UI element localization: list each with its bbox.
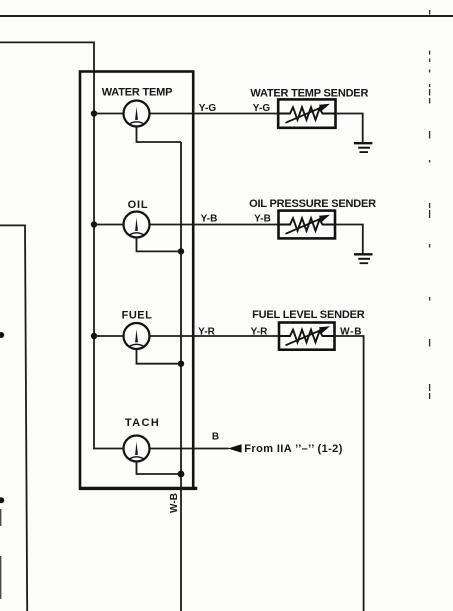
resistor: oil pressure sender element xyxy=(279,218,336,231)
svg-text:WATER TEMP: WATER TEMP xyxy=(102,86,173,98)
wire: gauge supply bus xyxy=(94,114,124,449)
svg-text:W-B: W-B xyxy=(169,493,180,513)
svg-text:FUEL: FUEL xyxy=(122,309,153,321)
svg-text:TACH: TACH xyxy=(125,417,160,429)
instrument cluster box xyxy=(80,72,193,489)
resistor: fuel level sender element xyxy=(279,330,335,343)
arrow: variable resistor (water temp) xyxy=(286,105,327,123)
wire: tach signal (B) xyxy=(150,448,229,450)
resistor: water temp sender element xyxy=(278,107,335,120)
wire: water temp gauge to sender (Y-G) xyxy=(150,113,279,115)
sender: fuel level sender box xyxy=(279,323,335,350)
arrow: variable resistor (fuel) xyxy=(286,328,327,346)
wire: fuel gauge negative return xyxy=(137,349,182,364)
wire: clipped wire at left page edge (lower segment) xyxy=(0,556,2,599)
wire: fuel gauge to sender (Y-R) xyxy=(150,335,280,337)
wire: clipped wire at left page edge (upper segment) xyxy=(0,509,2,526)
node: bus junction at water temp gauge xyxy=(91,110,97,116)
wire: bus to fuel gauge xyxy=(94,335,124,337)
svg-text:Y-R: Y-R xyxy=(198,326,216,337)
arrow: variable resistor (oil) xyxy=(286,216,327,234)
sender: oil pressure sender box xyxy=(279,211,336,239)
wire: oil sender to ground xyxy=(335,225,363,254)
wire: oil gauge negative return xyxy=(137,238,182,252)
sender: water temp sender box xyxy=(278,99,335,127)
wire: tach negative return xyxy=(137,462,182,475)
svg-text:Y-B: Y-B xyxy=(254,213,271,224)
gauge: oil pressure meter xyxy=(124,212,150,238)
gauge: water temp meter xyxy=(124,101,150,127)
wire: bus to water temp gauge xyxy=(94,113,124,115)
wire: oil gauge to sender (Y-B) xyxy=(150,224,279,226)
boundary: dashed page divider xyxy=(429,10,431,399)
svg-text:B: B xyxy=(212,431,219,442)
instrument cluster box bottom edge (heavier scan stroke) xyxy=(79,487,197,490)
svg-text:Y-G: Y-G xyxy=(253,103,271,114)
svg-text:OIL PRESSURE SENDER: OIL PRESSURE SENDER xyxy=(249,198,376,210)
wire: left branch turning down xyxy=(0,225,27,611)
wire: bus to oil gauge xyxy=(94,224,124,226)
svg-text:Y-R: Y-R xyxy=(251,326,269,337)
node: junction at left page edge (upper) xyxy=(0,332,4,338)
wire: water temp gauge negative return xyxy=(137,127,182,143)
wire: feed from left to instrument cluster xyxy=(0,42,94,113)
node: bus junction at fuel gauge xyxy=(91,333,97,339)
node: collector junction fuel xyxy=(178,361,184,367)
wire: water temp sender to ground xyxy=(336,114,363,143)
ground: water temp sender xyxy=(354,143,373,152)
gauge: fuel level meter xyxy=(124,323,150,349)
wire: top horizontal bus line xyxy=(0,15,453,17)
node: collector junction tach xyxy=(178,471,185,478)
gauge: tachometer xyxy=(124,436,150,462)
svg-text:Y-B: Y-B xyxy=(201,213,218,224)
ground: oil pressure sender xyxy=(354,254,373,263)
arrowhead: from IIA xyxy=(228,444,242,452)
node: collector junction oil xyxy=(178,248,184,254)
svg-text:OIL: OIL xyxy=(128,199,149,211)
node: junction at left page edge (lower) xyxy=(0,497,4,503)
svg-text:WATER TEMP SENDER: WATER TEMP SENDER xyxy=(250,88,368,100)
svg-text:FUEL LEVEL SENDER: FUEL LEVEL SENDER xyxy=(252,309,365,321)
svg-text:From IIA ’’–’’ (1-2): From IIA ’’–’’ (1-2) xyxy=(244,443,342,455)
wire: fuel sender W-B down xyxy=(335,336,364,611)
svg-text:Y-G: Y-G xyxy=(199,103,217,114)
node: bus junction at oil gauge xyxy=(91,221,97,227)
wire: gauge return collector (W-B) xyxy=(180,142,182,611)
